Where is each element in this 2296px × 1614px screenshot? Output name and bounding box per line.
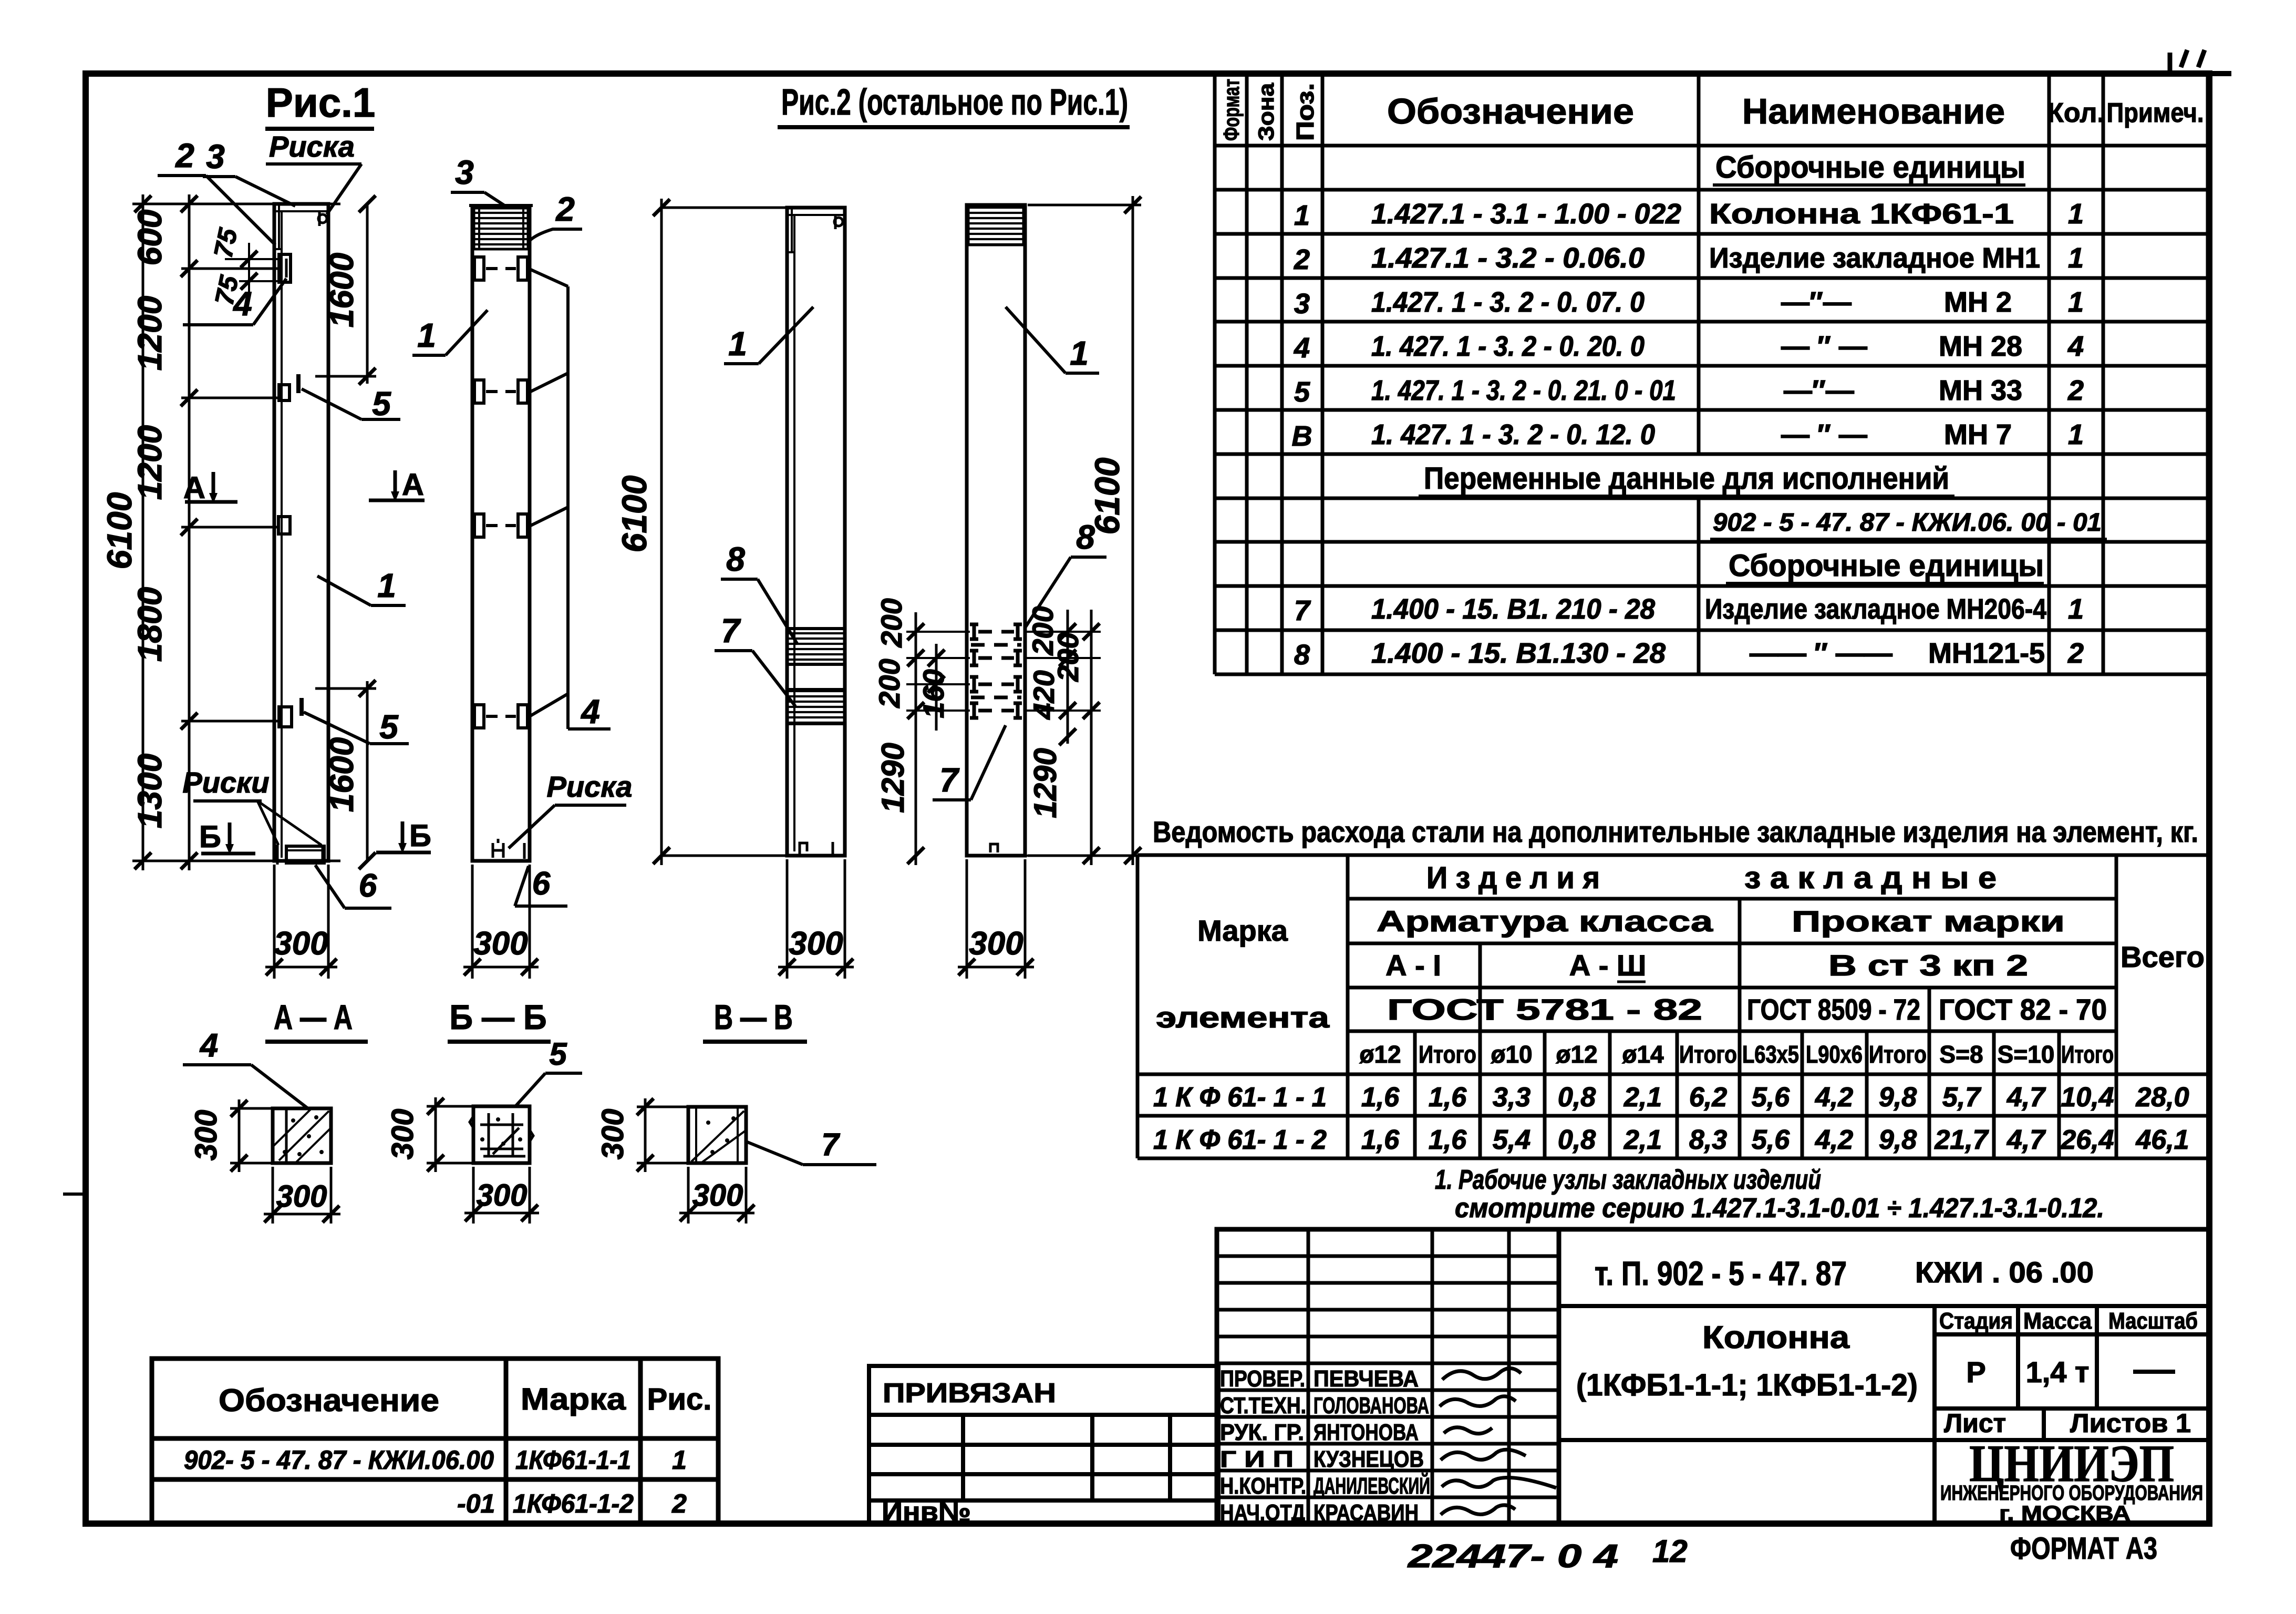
svg-text:5,6: 5,6	[1752, 1125, 1790, 1155]
svg-text:1.427.1 - 3.2 - 0.06.0: 1.427.1 - 3.2 - 0.06.0	[1371, 242, 1645, 274]
svg-text:1290: 1290	[1028, 748, 1063, 818]
dashed plate row 1 column 4	[970, 624, 1022, 639]
fold tick on left frame	[63, 1192, 86, 1196]
column 4 outline (fig2 side view)	[967, 205, 1025, 856]
svg-text:(1КФБ1-1-1; 1КФБ1-1-2): (1КФБ1-1-1; 1КФБ1-1-2)	[1576, 1368, 1918, 1402]
svg-text:6100: 6100	[1088, 457, 1126, 534]
svg-text:В — В: В — В	[714, 998, 793, 1036]
svg-text:Обозначение: Обозначение	[1387, 91, 1634, 131]
svg-text:4,7: 4,7	[2007, 1125, 2046, 1155]
svg-text:300: 300	[789, 926, 843, 962]
svg-text:А: А	[402, 468, 424, 502]
svg-text:МН 33: МН 33	[1939, 375, 2022, 406]
svg-text:1 К Ф 61- 1 - 2: 1 К Ф 61- 1 - 2	[1153, 1125, 1327, 1155]
svg-text:А — А: А — А	[274, 998, 353, 1036]
svg-text:Масса: Масса	[2023, 1308, 2092, 1334]
svg-text:ИНЖЕНЕРНОГО ОБОРУДОВАНИЯ: ИНЖЕНЕРНОГО ОБОРУДОВАНИЯ	[1940, 1482, 2203, 1505]
steel table sub headers	[1359, 1041, 2114, 1068]
callout 5 lower (fig1)	[299, 698, 304, 716]
svg-text:т. П. 902 - 5 - 47. 87: т. П. 902 - 5 - 47. 87	[1595, 1255, 1847, 1292]
svg-text:И з д е л и я: И з д е л и я	[1426, 861, 1600, 895]
svg-text:ГОЛОВАНОВА: ГОЛОВАНОВА	[1314, 1393, 1429, 1418]
svg-text:7: 7	[821, 1127, 840, 1162]
svg-text:Риска: Риска	[269, 130, 355, 163]
svg-text:1. 427. 1 - 3. 2 - 0. 21. 0 -: 1. 427. 1 - 3. 2 - 0. 21. 0 - 01	[1371, 375, 1676, 406]
svg-text:4: 4	[199, 1027, 218, 1064]
dim line 6100 overall (fig1 left)	[142, 194, 144, 870]
svg-text:Рис.2 (остальное по Рис.1): Рис.2 (остальное по Рис.1)	[781, 81, 1128, 122]
svg-text:300: 300	[276, 1179, 327, 1214]
svg-text:1,6: 1,6	[1429, 1125, 1467, 1155]
svg-text:Итого: Итого	[2061, 1041, 2114, 1068]
specification row poz.7 MH206-4	[1294, 593, 2084, 626]
svg-text:5: 5	[1294, 376, 1310, 408]
svg-text:А - I: А - I	[1385, 949, 1441, 982]
svg-text:ГОСТ 5781 - 82: ГОСТ 5781 - 82	[1387, 993, 1702, 1026]
svg-text:ДАНИЛЕВСКИЙ: ДАНИЛЕВСКИЙ	[1314, 1472, 1430, 1499]
svg-text:Переменные данные для испол: Переменные данные для исполнений	[1424, 461, 1949, 496]
riska mark top of column 1	[318, 214, 327, 223]
bottom mark column 4	[990, 844, 998, 852]
support plate item 6 at column 1 bottom	[286, 846, 324, 863]
svg-text:L63x5: L63x5	[1742, 1041, 1799, 1068]
svg-text:1,6: 1,6	[1361, 1082, 1400, 1113]
section marker A left	[185, 500, 237, 504]
bottom riska marks column 3	[800, 843, 807, 856]
svg-text:МН 28: МН 28	[1939, 331, 2022, 362]
svg-text:1800: 1800	[131, 587, 169, 662]
svg-text:5,6: 5,6	[1752, 1082, 1790, 1113]
steel table data row 1KF61-1-2	[1153, 1125, 2189, 1155]
title block document number row	[1559, 1306, 2209, 1524]
dim 300 under column 1	[265, 865, 337, 979]
section A-A left dim 300	[230, 1099, 274, 1172]
plate row 1 column 2	[474, 257, 528, 280]
svg-text:1. 427. 1 - 3. 2 - 0. 20. 0: 1. 427. 1 - 3. 2 - 0. 20. 0	[1371, 331, 1645, 362]
callout 7 section V-V	[746, 1142, 803, 1165]
svg-text:5: 5	[372, 385, 391, 423]
section B-B left dim 300	[427, 1097, 474, 1172]
column 1 outline (fig1 front view)	[274, 204, 328, 861]
svg-text:Масштаб: Масштаб	[2108, 1308, 2198, 1334]
svg-text:1.400 - 15. В1. 210 - 28: 1.400 - 15. В1. 210 - 28	[1371, 593, 1655, 625]
svg-text:Изделие закладное МН1: Изделие закладное МН1	[1709, 242, 2040, 274]
svg-text:1,6: 1,6	[1361, 1125, 1400, 1155]
dim line segments 600/1200/1200/1800/1300	[188, 194, 191, 870]
svg-text:Риска: Риска	[547, 770, 633, 803]
privyazan table	[869, 1366, 1218, 1524]
column 3 outline (fig2 front view)	[787, 208, 845, 856]
svg-text:1: 1	[2068, 242, 2084, 274]
svg-text:5,4: 5,4	[1493, 1125, 1530, 1155]
embedded plate (item 5 lower)	[279, 707, 292, 727]
svg-text:1600: 1600	[323, 253, 360, 327]
svg-text:В: В	[1292, 420, 1312, 452]
svg-text:ФОРМАТ А3: ФОРМАТ А3	[2010, 1531, 2157, 1566]
svg-text:КЖИ . 06 .00: КЖИ . 06 .00	[1915, 1256, 2094, 1289]
title block outer frame	[1217, 1229, 2209, 1524]
svg-text:КРАСАВИН: КРАСАВИН	[1314, 1500, 1419, 1526]
svg-text:S=8: S=8	[1939, 1041, 1983, 1068]
svg-text:Лист: Лист	[1944, 1409, 2006, 1438]
specification row poz.5 MH33	[1294, 375, 2084, 408]
svg-text:-01: -01	[457, 1489, 495, 1518]
section marker B left	[201, 852, 255, 856]
svg-text:4: 4	[1294, 332, 1310, 364]
svg-text:—— ″ ——: —— ″ ——	[1750, 638, 1892, 669]
svg-text:—″—: —″—	[1781, 286, 1852, 318]
svg-text:21,7: 21,7	[1934, 1125, 1989, 1155]
corner mark 1-inch top right	[2170, 50, 2205, 75]
svg-text:902 - 5 - 47. 87 - КЖИ.06.: 902 - 5 - 47. 87 - КЖИ.06. 00 - 01	[1713, 509, 2102, 537]
svg-text:160: 160	[917, 669, 950, 718]
svg-text:300: 300	[969, 926, 1023, 962]
svg-text:Марка: Марка	[1197, 914, 1288, 947]
svg-text:Н.КОНТР.: Н.КОНТР.	[1220, 1473, 1306, 1499]
svg-text:4,7: 4,7	[2007, 1082, 2046, 1113]
svg-text:1. 427. 1 - 3. 2 - 0. 12. 0: 1. 427. 1 - 3. 2 - 0. 12. 0	[1371, 419, 1655, 450]
svg-text:6: 6	[359, 868, 377, 904]
svg-text:1: 1	[672, 1445, 687, 1475]
svg-text:1 К Ф 61- 1 - 1: 1 К Ф 61- 1 - 1	[1153, 1082, 1327, 1113]
svg-text:Р: Р	[1966, 1355, 1985, 1389]
signature squiggles	[1440, 1368, 1556, 1515]
svg-text:S=10: S=10	[1998, 1041, 2055, 1068]
svg-text:смотрите серию 1.427.1-3.1-0.0: смотрите серию 1.427.1-3.1-0.01 ÷ 1.427.…	[1455, 1193, 2104, 1224]
specification row poz.2 MH1	[1294, 242, 2084, 275]
svg-text:1: 1	[2068, 593, 2084, 625]
svg-text:ø14: ø14	[1622, 1041, 1664, 1068]
svg-text:200: 200	[875, 598, 908, 647]
band item 7 on column 3	[787, 690, 845, 724]
svg-text:4: 4	[232, 285, 252, 323]
svg-text:Наименование: Наименование	[1742, 91, 2005, 131]
svg-text:3: 3	[455, 153, 474, 191]
specification heading: variable data	[1419, 461, 1954, 496]
svg-text:4,2: 4,2	[1815, 1125, 1853, 1155]
MH1 embedded plate hatch top of column 2	[474, 208, 528, 249]
section V-V left dim 300	[637, 1098, 689, 1172]
svg-text:Рис.: Рис.	[647, 1382, 712, 1416]
column 2 outline (fig1 side view)	[472, 207, 530, 861]
svg-text:Прокат марки: Прокат марки	[1792, 904, 2065, 938]
specification row poz.4 MH28	[1294, 331, 2084, 364]
svg-text:В ст 3 кп 2: В ст 3 кп 2	[1828, 949, 2028, 982]
svg-text:6100: 6100	[100, 492, 139, 569]
svg-text:8: 8	[1294, 639, 1310, 671]
svg-text:Поз.: Поз.	[1291, 83, 1319, 141]
band item 8 on column 3	[787, 629, 845, 664]
svg-text:МН121-5: МН121-5	[1928, 638, 2045, 669]
svg-text:Кол.: Кол.	[2047, 98, 2105, 128]
left dim chain column 4	[915, 612, 917, 865]
svg-text:Б — Б: Б — Б	[450, 998, 547, 1036]
svg-text:28,0: 28,0	[2135, 1082, 2189, 1113]
specification row: assembly units heading	[1713, 150, 2025, 185]
callout 4 leader column 2	[530, 269, 611, 729]
svg-text:—″—: —″—	[1784, 375, 1854, 406]
signature table grid	[1217, 1229, 1559, 1524]
svg-text:6: 6	[532, 866, 551, 902]
svg-text:5: 5	[379, 708, 399, 746]
svg-text:1: 1	[2068, 286, 2084, 318]
svg-text:2: 2	[2067, 638, 2084, 669]
svg-text:7: 7	[939, 761, 960, 799]
svg-text:46,1: 46,1	[2135, 1125, 2189, 1155]
section B-B bottom dim 300	[464, 1167, 539, 1224]
svg-text:2: 2	[175, 137, 194, 174]
svg-text:Марка: Марка	[521, 1382, 626, 1416]
section V-V square	[688, 1107, 746, 1163]
svg-text:Итого: Итого	[1869, 1041, 1927, 1068]
svg-text:Рис.1: Рис.1	[266, 79, 375, 126]
svg-text:1КФ61-1-1: 1КФ61-1-1	[515, 1445, 631, 1475]
svg-text:1КФ61-1-2: 1КФ61-1-2	[513, 1489, 634, 1518]
svg-text:1.427. 1 - 3. 2 - 0. 07. 0: 1.427. 1 - 3. 2 - 0. 07. 0	[1371, 286, 1645, 318]
specification row poz.3 MH2	[1294, 286, 2084, 320]
svg-text:600: 600	[131, 210, 169, 266]
svg-text:РУК. ГР.: РУК. ГР.	[1220, 1420, 1304, 1445]
svg-text:А - Ш: А - Ш	[1569, 949, 1646, 982]
svg-text:4,2: 4,2	[1815, 1082, 1853, 1113]
svg-text:ø10: ø10	[1491, 1041, 1532, 1068]
svg-text:1: 1	[2068, 198, 2084, 230]
specification row poz.6 MH7	[1292, 419, 2084, 452]
svg-text:Колонна: Колонна	[1702, 1320, 1850, 1355]
svg-text:4: 4	[2067, 331, 2084, 362]
svg-text:6100: 6100	[615, 475, 654, 552]
svg-text:Изделие закладное МН206-4: Изделие закладное МН206-4	[1705, 593, 2046, 625]
callout 5 upper (fig1)	[296, 374, 301, 393]
svg-text:Риски: Риски	[182, 766, 269, 799]
svg-text:Ведомость расхода стали на: Ведомость расхода стали на дополнительны…	[1153, 815, 2198, 848]
svg-text:НАЧ.ОТД: НАЧ.ОТД	[1220, 1500, 1305, 1526]
svg-text:9,8: 9,8	[1879, 1082, 1917, 1113]
svg-text:Обозначение: Обозначение	[219, 1383, 439, 1418]
svg-text:3: 3	[206, 138, 225, 176]
dashed plate row 2 column 4	[970, 651, 1022, 665]
svg-text:902- 5 - 47. 87 - КЖИ.06.: 902- 5 - 47. 87 - КЖИ.06.00	[184, 1445, 494, 1475]
svg-text:1: 1	[377, 567, 396, 604]
svg-text:ПРОВЕР.: ПРОВЕР.	[1220, 1366, 1305, 1392]
svg-text:Стадия: Стадия	[1939, 1308, 2013, 1334]
svg-text:1600: 1600	[323, 737, 360, 812]
extra dashed lines column 4	[971, 643, 1021, 647]
svg-text:2: 2	[2067, 375, 2084, 406]
dim 300 under column 3	[778, 859, 854, 979]
svg-text:8: 8	[726, 540, 745, 578]
svg-text:А: А	[183, 471, 205, 505]
svg-text:1: 1	[728, 325, 747, 363]
svg-text:1. Рабочие узлы закладных изде: 1. Рабочие узлы закладных изделий	[1435, 1165, 1821, 1195]
plate row 2 column 2	[474, 380, 528, 403]
section V-V bottom dim 300	[679, 1167, 754, 1224]
right dim chain column 4	[1067, 610, 1069, 744]
svg-text:300: 300	[386, 1109, 420, 1160]
svg-text:8,3: 8,3	[1689, 1125, 1727, 1155]
svg-text:1300: 1300	[131, 754, 169, 828]
svg-text:Итого: Итого	[1419, 1041, 1476, 1068]
dim 6100 right of column 4	[1028, 204, 1141, 207]
svg-text:5,7: 5,7	[1942, 1082, 1981, 1113]
svg-text:300: 300	[692, 1178, 743, 1212]
section A-A square	[273, 1108, 331, 1163]
svg-text:7: 7	[1294, 595, 1311, 626]
bottom-left designation table	[152, 1359, 718, 1524]
svg-text:Арматура класса: Арматура класса	[1377, 904, 1713, 938]
svg-text:ЯНТОНОВА: ЯНТОНОВА	[1314, 1420, 1419, 1445]
svg-text:Инв№: Инв№	[882, 1497, 971, 1527]
svg-text:1: 1	[2068, 419, 2084, 450]
plate row 4 column 2	[474, 705, 528, 728]
svg-text:10,4: 10,4	[2061, 1082, 2114, 1113]
svg-text:1,4 т: 1,4 т	[2026, 1355, 2090, 1389]
svg-text:— ″ —: — ″ —	[1781, 331, 1867, 362]
svg-text:2: 2	[555, 190, 575, 228]
svg-text:200: 200	[873, 659, 906, 708]
fig1 extension lines top and bottom	[132, 204, 340, 861]
hatch band top of column 4	[968, 207, 1023, 245]
embedded plate (item 5 upper)	[279, 385, 289, 400]
svg-text:Б: Б	[409, 819, 431, 853]
svg-text:2: 2	[671, 1489, 687, 1518]
svg-text:3,3: 3,3	[1493, 1082, 1530, 1113]
section B-B square	[473, 1106, 530, 1163]
svg-text:300: 300	[477, 1178, 528, 1212]
svg-text:ПРИВЯЗАН: ПРИВЯЗАН	[883, 1378, 1056, 1409]
svg-text:5: 5	[549, 1036, 567, 1072]
bottom riska marks column 1	[276, 845, 279, 865]
svg-text:Итого: Итого	[1679, 1041, 1737, 1068]
svg-text:3: 3	[1294, 288, 1310, 320]
svg-text:МН 2: МН 2	[1944, 286, 2012, 318]
svg-text:7: 7	[721, 612, 741, 650]
svg-text:1: 1	[417, 316, 436, 354]
svg-text:1: 1	[1294, 200, 1310, 231]
dim 6100 left of column 3	[661, 207, 812, 209]
dim 1600 upper right of column 1	[366, 204, 369, 384]
specification table grid	[1215, 74, 2208, 674]
svg-text:Зона: Зона	[1254, 83, 1278, 141]
dashed plate row 3 column 4	[970, 677, 1022, 692]
svg-text:Сборочные единицы: Сборочные единицы	[1729, 549, 2044, 583]
svg-text:0,8: 0,8	[1558, 1125, 1596, 1155]
svg-text:0,8: 0,8	[1558, 1082, 1596, 1113]
dim 300 under column 2	[463, 865, 539, 979]
embedded plate MH28 upper (item 4)	[279, 254, 291, 282]
specification row 902-5-47.87 KZhI.06.00-01	[1710, 509, 2107, 539]
specification row poz.8 MH121-5	[1294, 638, 2084, 671]
dim 75/75	[225, 243, 280, 294]
specification heading: assembly units 2	[1726, 549, 2044, 583]
svg-text:1,6: 1,6	[1429, 1082, 1467, 1113]
svg-text:2: 2	[1294, 244, 1310, 275]
svg-text:з а к л а д н ы е: з а к л а д н ы е	[1744, 861, 1997, 895]
svg-text:4: 4	[580, 693, 600, 731]
svg-text:ГОСТ 8509 - 72: ГОСТ 8509 - 72	[1747, 993, 1920, 1026]
specification row poz.1 column 1KF61-1	[1294, 198, 2084, 231]
dim 300 under column 4	[958, 859, 1034, 979]
svg-text:200: 200	[1051, 632, 1084, 682]
svg-text:300: 300	[189, 1110, 223, 1161]
svg-text:— ″ —: — ″ —	[1781, 419, 1867, 450]
svg-text:Б: Б	[199, 820, 221, 854]
plate row 3 column 2	[474, 514, 528, 537]
svg-text:300: 300	[596, 1109, 630, 1160]
steel table data row 1KF61-1-1	[1153, 1082, 2189, 1113]
steel table header texts	[1156, 861, 2205, 1034]
svg-text:26,4: 26,4	[2060, 1125, 2114, 1155]
steel consumption table grid	[1137, 855, 2209, 1158]
signature rows texts	[1220, 1366, 1430, 1526]
section A-A bottom dim 300	[264, 1167, 340, 1224]
svg-text:12: 12	[1652, 1534, 1688, 1569]
svg-text:1: 1	[1070, 334, 1089, 372]
svg-text:2,1: 2,1	[1623, 1125, 1662, 1155]
svg-text:1290: 1290	[875, 743, 911, 813]
svg-text:ø12: ø12	[1359, 1041, 1401, 1068]
svg-text:Колонна 1КФ61-1: Колонна 1КФ61-1	[1709, 198, 2014, 230]
svg-text:г. МОСКВА: г. МОСКВА	[1999, 1502, 2130, 1525]
svg-text:1200: 1200	[131, 425, 169, 500]
svg-text:Примеч.: Примеч.	[2107, 98, 2204, 128]
svg-text:КУЗНЕЦОВ: КУЗНЕЦОВ	[1314, 1446, 1424, 1472]
svg-text:1200: 1200	[131, 296, 169, 371]
svg-text:ГОСТ 82 - 70: ГОСТ 82 - 70	[1939, 993, 2107, 1026]
svg-text:Г И П: Г И П	[1220, 1446, 1294, 1472]
svg-text:22447- 0 4: 22447- 0 4	[1408, 1538, 1618, 1575]
svg-text:300: 300	[473, 926, 528, 962]
svg-text:L90x6: L90x6	[1806, 1041, 1863, 1068]
svg-text:ø12: ø12	[1556, 1041, 1597, 1068]
svg-text:6,2: 6,2	[1689, 1082, 1727, 1113]
svg-text:1.427.1 - 3.1 - 1.00 - 022: 1.427.1 - 3.1 - 1.00 - 022	[1371, 198, 1681, 230]
specification table header texts	[1219, 79, 2204, 141]
svg-text:2,1: 2,1	[1623, 1082, 1662, 1113]
svg-text:ПЕВЧЕВА: ПЕВЧЕВА	[1314, 1366, 1419, 1392]
bottom riska channel column 2	[493, 839, 503, 858]
dashed plate row 4 column 4	[970, 703, 1022, 718]
svg-text:9,8: 9,8	[1879, 1125, 1917, 1155]
svg-text:СТ.ТЕХН.: СТ.ТЕХН.	[1220, 1393, 1306, 1418]
svg-text:Сборочные единицы: Сборочные единицы	[1715, 150, 2025, 184]
svg-text:1.400 - 15. В1.130 - 28: 1.400 - 15. В1.130 - 28	[1371, 638, 1666, 669]
svg-text:Всего: Всего	[2121, 940, 2205, 973]
svg-text:300: 300	[274, 926, 328, 962]
svg-text:Листов 1: Листов 1	[2070, 1409, 2191, 1438]
section marker B right	[376, 851, 431, 855]
embedded plate middle	[278, 517, 290, 534]
svg-text:МН 7: МН 7	[1944, 419, 2012, 450]
frame top-right overshoot	[2209, 71, 2231, 76]
dim 1600 lower right of column 1	[366, 681, 369, 861]
svg-text:Формат: Формат	[1219, 79, 1244, 141]
riska mark top of column 3	[834, 218, 843, 226]
section marker A right	[369, 499, 425, 502]
svg-text:элемента: элемента	[1156, 1001, 1330, 1034]
